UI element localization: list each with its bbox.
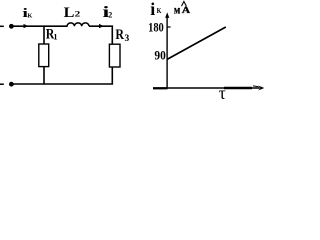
graph thick tau interval on x-axis <box>224 87 252 89</box>
svg-text:1: 1 <box>53 33 57 42</box>
svg-text:K: K <box>157 7 162 15</box>
svg-text:2: 2 <box>108 11 112 20</box>
wire: top-left stub <box>0 25 4 27</box>
svg-text:R: R <box>115 27 124 43</box>
current arrow i_2 <box>99 24 104 28</box>
svg-text:м: м <box>174 2 180 16</box>
wire: R1 branch top <box>43 26 45 44</box>
node: top-left terminal dot <box>9 24 14 29</box>
graph x-axis <box>153 87 260 89</box>
wire: bottom horizontal <box>11 83 113 85</box>
svg-text:K: K <box>28 13 33 20</box>
graph x-axis left thicker portion <box>153 87 167 89</box>
svg-text:2: 2 <box>75 10 81 19</box>
resistor R3 body <box>109 44 120 67</box>
graph x-axis arrowhead <box>258 86 264 91</box>
node: bottom-left terminal dot <box>9 82 14 87</box>
resistor R1 body <box>39 44 49 67</box>
svg-text:3: 3 <box>125 34 130 44</box>
wire: R1 branch bottom <box>43 67 45 84</box>
wire: R3 branch bottom <box>111 67 113 84</box>
svg-text:i: i <box>150 0 155 19</box>
graph y-axis <box>166 15 168 89</box>
wire: top horizontal (left of coil) <box>11 25 67 27</box>
current arrow i_K <box>24 24 29 28</box>
svg-text:90: 90 <box>154 49 165 63</box>
graph tick at 180 <box>167 26 171 28</box>
graph y-axis arrowhead <box>165 12 169 18</box>
caret above A of mA <box>182 2 187 7</box>
wire: top horizontal (right of coil) + right branch down <box>89 26 112 44</box>
wire: bottom-left stub <box>0 83 4 85</box>
svg-text:180: 180 <box>148 21 164 35</box>
inductor L2 coil <box>67 23 89 26</box>
svg-text:τ: τ <box>219 83 226 103</box>
graph curve i_K(tau) rising line <box>167 27 226 59</box>
svg-text:А: А <box>182 5 190 16</box>
svg-text:L: L <box>64 5 75 21</box>
